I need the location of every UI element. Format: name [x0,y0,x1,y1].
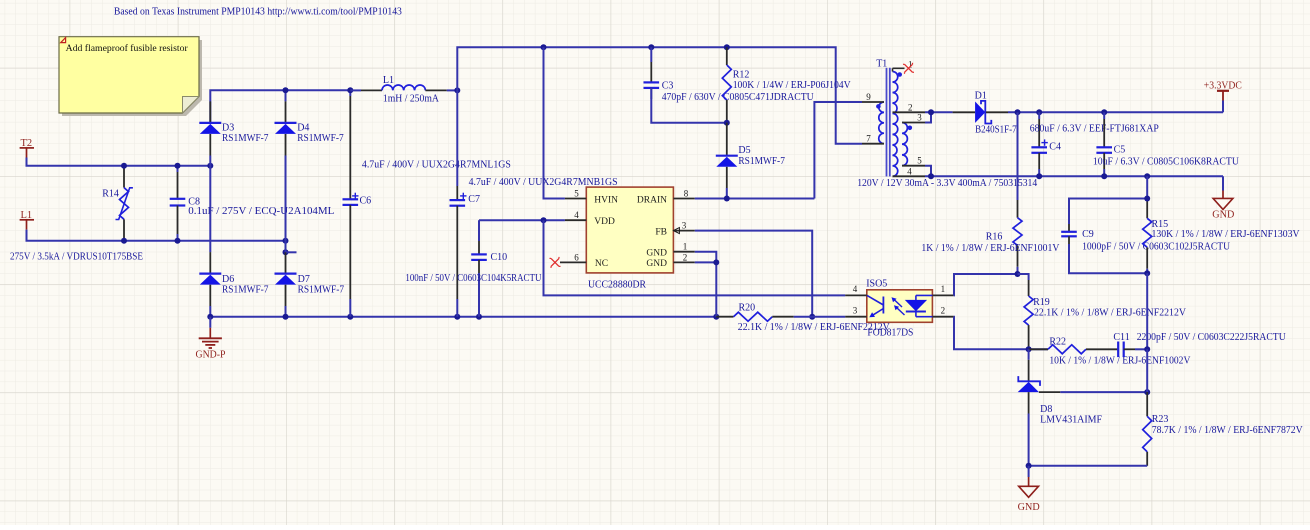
junction dots HV bus [541,44,730,50]
svg-text:D5: D5 [738,145,750,156]
wire VDD net [479,219,565,221]
svg-text:3: 3 [917,113,922,123]
diode D6 [199,252,234,306]
ground GND (bottom) [1018,466,1040,513]
wire VDD to ISO5 collector [544,220,846,295]
wire T2 to bridge [27,158,211,166]
junction dot VDD [541,217,547,223]
value D6: RS1MWF-7 [222,285,269,296]
ground GND (right) [1212,191,1234,221]
svg-text:4: 4 [574,210,579,220]
pin 4 VDD [565,210,586,220]
value D3: RS1MWF-7 [222,133,269,144]
T1 pin 9 [862,92,884,102]
shunt reference D8 LMV431AIMF [1018,349,1053,466]
value C9: 1000pF / 50V / C0603C102J5RACTU [1082,241,1231,252]
value D5: RS1MWF-7 [738,156,785,167]
junction dot DRAIN/D5 [724,196,730,202]
svg-text:RS1MWF-7: RS1MWF-7 [297,133,344,144]
junction dot bottom return [1026,463,1032,469]
svg-text:NC: NC [595,259,608,269]
wire L1 to bridge [27,230,286,241]
value R12: 100K / 1/4W / ERJ-P06J104V [733,80,852,91]
svg-text:Based on Texas Instrument PMP1: Based on Texas Instrument PMP10143 http:… [114,6,402,17]
ground GND-P [196,317,226,361]
svg-text:D1: D1 [975,90,987,101]
junction dots R15/C9 [1144,196,1150,277]
svg-text:130K / 1% / 1/8W / ERJ-6ENF130: 130K / 1% / 1/8W / ERJ-6ENF1303V [1152,229,1301,240]
svg-text:2: 2 [683,252,688,262]
value L1: 1mH / 250mA [383,94,440,105]
svg-text:RS1MWF-7: RS1MWF-7 [298,285,345,296]
svg-text:4.7uF / 400V / UUX2G4R7MNL1GS: 4.7uF / 400V / UUX2G4R7MNL1GS [362,160,511,171]
no-ERC marker on T1 pin 1 [903,63,914,74]
svg-text:UCC28880DR: UCC28880DR [588,279,646,290]
svg-text:R19: R19 [1033,297,1050,308]
pin 3 FB [673,221,694,234]
junction dots on input wires [121,163,289,256]
wire FB net [695,231,812,317]
svg-text:1: 1 [683,242,688,252]
wire +3.3V rail [1008,101,1223,113]
junction dot FB to R20 node [809,314,815,320]
svg-text:L1: L1 [383,75,394,86]
svg-text:1000pF / 50V / C0603C102J5RACT: 1000pF / 50V / C0603C102J5RACTU [1082,241,1231,252]
capacitor C11 [1113,332,1147,357]
resistor R20 [716,302,845,321]
svg-text:GND: GND [646,259,667,269]
wire D3 anode to D6 [209,156,211,253]
value D4: RS1MWF-7 [297,133,344,144]
svg-text:R14: R14 [102,188,119,199]
svg-text:LMV431AIMF: LMV431AIMF [1040,415,1102,426]
wire R15 bottom to C11 node [1146,273,1148,349]
capacitor C8 [170,166,200,241]
diode D7 [275,252,310,306]
T1 primary winding (pins 9-7) [876,102,884,144]
junction dot U1 pin2 [713,259,719,265]
value C7: 4.7uF / 400V / UUX2G4R7MNB1GS [469,177,618,188]
port L1 (net) [20,210,34,229]
wire D4 anode to D7 [285,156,287,253]
svg-text:GND-P: GND-P [196,350,226,361]
T1 pin 2 [893,102,926,112]
ISO5 pin 1 [932,284,953,295]
svg-text:R22: R22 [1049,337,1066,348]
T1 pin 4 [893,166,926,176]
T1 pin 3 [902,112,931,122]
value C8: 0.1uF / 275V / ECQ-U2A104ML [188,206,334,217]
resistor R16 [986,112,1022,274]
capacitor C5 [1096,112,1125,176]
svg-text:VDD: VDD [594,217,615,227]
value C11: 2200pF / 50V / C0603C222J5RACTU [1137,332,1287,343]
svg-text:10K / 1% / 1/8W / ERJ-6ENF1002: 10K / 1% / 1/8W / ERJ-6ENF1002V [1049,355,1191,366]
value C5: 10uF / 6.3V / C0805C106K8RACTU [1093,157,1240,168]
junction dot R19 bottom [1026,346,1032,352]
svg-text:2200pF / 50V / C0603C222J5RACT: 2200pF / 50V / C0603C222J5RACTU [1137,332,1287,343]
ISO5 phototransistor [867,295,883,317]
pin 1 GND [673,242,694,252]
svg-text:7: 7 [866,134,871,144]
svg-text:8: 8 [684,189,689,199]
wire D8 ref to R23 [1039,391,1147,393]
varistor R14 [102,166,133,241]
svg-text:HVIN: HVIN [594,195,618,205]
wire bottom return [1029,465,1148,467]
capacitor C7 [450,90,480,316]
svg-text:B240S1F-7: B240S1F-7 [975,124,1017,135]
T1 secondary winding A (pins 1-2-4) [893,72,903,177]
svg-text:5: 5 [574,189,579,199]
value R22: 10K / 1% / 1/8W / ERJ-6ENF1002V [1049,355,1191,366]
T1 pin 1 [893,59,913,71]
capacitor C4 [1031,112,1061,176]
op-amp U1 UCC28880DR body [586,187,673,273]
svg-text:RS1MWF-7: RS1MWF-7 [222,133,269,144]
resistor R19 [1018,274,1050,349]
junction dots GND-P bus [207,314,719,320]
svg-text:ISO5: ISO5 [866,279,887,290]
svg-text:GND: GND [1212,210,1234,221]
junction dot C11/R23 [1144,346,1150,352]
svg-text:D8: D8 [1040,404,1052,415]
junction dots C6/D4 top [283,87,354,93]
svg-text:T1: T1 [876,59,887,70]
svg-text:C4: C4 [1049,142,1061,153]
capacitor C6 [343,90,372,316]
inductor L1 [350,75,457,90]
T1 pin 5 [902,156,931,177]
svg-text:GND: GND [646,248,667,258]
svg-text:Add flameproof fusible resisto: Add flameproof fusible resistor [66,43,189,54]
wire stub at D7 node [286,251,297,253]
T1 secondary winding B (pins 3-5) [902,123,912,166]
svg-text:C3: C3 [662,81,674,92]
value R19: 22.1K / 1% / 1/8W / ERJ-6ENF2212V [1034,308,1187,319]
power port +3.3VDC [1204,80,1242,100]
svg-text:DRAIN: DRAIN [637,195,667,205]
svg-text:3: 3 [682,221,687,231]
ISO5 pin 2 [932,305,953,316]
text: title "Based on Texas Instrument PMP10143" [114,6,402,17]
value C6: 4.7uF / 400V / UUX2G4R7MNL1GS [362,160,511,171]
ISO5 coupling arrows [892,297,905,315]
svg-text:1mH / 250mA: 1mH / 250mA [383,94,440,105]
wire secondary return rail [925,176,1223,190]
junction dot T1 pin2/3 [928,109,934,115]
svg-text:D6: D6 [222,274,234,285]
wire GND-P bus [210,306,716,317]
capacitor C3 [644,47,727,122]
svg-text:2: 2 [908,102,913,112]
svg-text:120V / 12V 30mA - 3.3V 400mA /: 120V / 12V 30mA - 3.3V 400mA / 750315314 [857,178,1037,189]
capacitor C10 [471,220,507,317]
junction dots +3.3V rail [1015,109,1108,115]
svg-text:9: 9 [866,92,871,102]
svg-text:R16: R16 [986,232,1003,243]
pin 8 DRAIN [673,189,694,199]
value R16: 1K / 1% / 1/8W / ERJ-6ENF1001V [921,243,1060,254]
svg-text:275V / 3.5kA / VDRUS10T175BSE: 275V / 3.5kA / VDRUS10T175BSE [10,252,143,263]
svg-text:1: 1 [941,284,946,294]
svg-text:100K / 1/4W / ERJ-P06J104V: 100K / 1/4W / ERJ-P06J104V [733,80,852,91]
value D8: LMV431AIMF [1040,415,1102,426]
wire rectified top bus [210,90,350,123]
svg-text:10uF / 6.3V / C0805C106K8RACTU: 10uF / 6.3V / C0805C106K8RACTU [1093,157,1240,168]
wire DRAIN net to T1 pin 9 [695,102,862,199]
value C10: 100nF / 50V / C0603C104K5RACTU [405,273,542,284]
junction dots return rail [928,173,1150,179]
value C3: 470pF / 630V / C0805C471JDRACTU [662,92,815,103]
svg-text:3: 3 [853,305,858,315]
value T1: 120V / 12V 30mA - 3.3V 400mA / 750315314 [857,178,1037,189]
svg-text:C5: C5 [1114,145,1126,156]
diode D5 [716,123,751,199]
value U1: UCC28880DR [588,279,646,290]
svg-text:FOD817DS: FOD817DS [867,327,913,338]
wire HVIN net [544,47,565,198]
value R23: 78.7K / 1% / 1/8W / ERJ-6ENF7872V [1152,425,1304,436]
optocoupler ISO5 FOD817DS body [866,279,932,323]
capacitor C9 [1061,199,1147,274]
svg-text:1K / 1% / 1/8W / ERJ-6ENF1001V: 1K / 1% / 1/8W / ERJ-6ENF1001V [921,243,1060,254]
ISO5 pin 4 [845,284,867,295]
diode D4 [275,101,310,155]
note: Add flameproof fusible resistor [59,37,202,116]
diode D1 [953,90,1008,123]
value R14: 275V / 3.5kA / VDRUS10T175BSE [10,252,143,263]
resistor R15 [1143,176,1168,273]
resistor R22 [1029,337,1119,354]
svg-text:78.7K / 1% / 1/8W / ERJ-6ENF78: 78.7K / 1% / 1/8W / ERJ-6ENF7872V [1152,425,1304,436]
value ISO5: FOD817DS [867,327,913,338]
T1 pin 7 [862,134,884,144]
svg-text:C11: C11 [1113,332,1129,343]
no-ERC marker on pin 6 [550,257,561,268]
svg-text:4: 4 [853,284,858,294]
junction dot R16/R19 [1015,271,1021,277]
ISO5 pin 3 [845,305,867,316]
svg-text:GND: GND [1018,502,1040,513]
diode D3 [199,101,234,155]
value R20: 22.1K / 1% / 1/8W / ERJ-6ENF2212V [738,322,891,333]
port T2 [20,138,34,158]
resistor R23 [1143,349,1169,466]
value C4: 680uF / 6.3V / EEF-FTJ681XAP [1030,124,1159,135]
wire HV bus [457,47,862,143]
wire ISO5 pin2 to R22 [954,317,1048,350]
svg-text:4: 4 [907,166,912,176]
svg-text:C6: C6 [360,195,372,206]
svg-text:2: 2 [941,305,946,315]
transformer T1 core [876,59,890,177]
value D1: B240S1F-7 [975,124,1017,135]
resistor R12 [722,47,749,122]
junction dot L1 right / C7 top [454,87,460,93]
wire 12V rail [925,111,953,113]
junction dot R12/C3/D5 [724,120,730,126]
svg-text:22.1K / 1% / 1/8W / ERJ-6ENF22: 22.1K / 1% / 1/8W / ERJ-6ENF2212V [1034,308,1187,319]
svg-text:470pF / 630V / C0805C471JDRACT: 470pF / 630V / C0805C471JDRACTU [662,92,815,103]
svg-text:100nF / 50V / C0603C104K5RACTU: 100nF / 50V / C0603C104K5RACTU [405,273,542,284]
svg-text:680uF / 6.3V / EEF-FTJ681XAP: 680uF / 6.3V / EEF-FTJ681XAP [1030,124,1159,135]
ISO5 LED [905,295,933,316]
svg-text:R23: R23 [1152,414,1169,425]
svg-text:D7: D7 [298,274,310,285]
pin 2 GND [673,252,694,262]
junction dot D8 ref [1144,389,1150,395]
svg-text:+3.3VDC: +3.3VDC [1204,80,1242,91]
svg-text:RS1MWF-7: RS1MWF-7 [738,156,785,167]
svg-text:5: 5 [917,156,922,166]
svg-text:FB: FB [655,227,667,237]
svg-text:R20: R20 [739,302,756,313]
svg-text:6: 6 [574,252,579,262]
wire ISO5 pin1 to R16 [954,274,1018,295]
value D7: RS1MWF-7 [298,285,345,296]
pin 6 NC [560,252,586,262]
svg-text:C7: C7 [468,194,480,205]
svg-text:C9: C9 [1082,229,1094,240]
value R15: 130K / 1% / 1/8W / ERJ-6ENF1303V [1152,229,1301,240]
pin 5 HVIN [565,189,586,199]
svg-text:RS1MWF-7: RS1MWF-7 [222,285,269,296]
svg-text:C10: C10 [491,252,508,263]
wire U1 GND to GND-P bus [695,252,717,317]
